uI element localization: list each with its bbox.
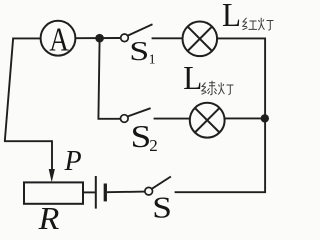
junction node right (dot)	[261, 114, 269, 122]
wire: lamp L1 to right corner	[217, 37, 266, 39]
svg-text:A: A	[49, 21, 69, 58]
wire: lower-left horizontal to slider stem	[4, 140, 52, 142]
wire: ammeter to switch S1	[76, 37, 121, 39]
label S1	[129, 36, 155, 67]
svg-text:S: S	[131, 119, 152, 154]
label L1 subscript: 灯 (hand-drawn)	[258, 18, 273, 31]
svg-text:1: 1	[149, 53, 156, 68]
label L2: L	[183, 60, 202, 97]
wire: S2 row horizontal to pivot	[98, 118, 121, 120]
lamp L1 (red) circle with cross	[183, 22, 218, 57]
svg-text:P: P	[64, 146, 82, 177]
label L2 subscript: 灯 (hand-drawn)	[218, 83, 233, 95]
switch S lever	[152, 177, 171, 189]
battery long plate (+)	[95, 176, 97, 209]
ammeter A	[41, 21, 76, 59]
label S2	[131, 119, 158, 155]
wire: lamp L2 to right side	[225, 117, 265, 119]
svg-text:2: 2	[149, 136, 158, 155]
wire: battery to switch S	[107, 191, 145, 194]
wire: top-left from left corner to ammeter	[13, 37, 41, 39]
wire: S2 to lamp L2	[154, 118, 191, 120]
switch S2 pivot circle	[121, 115, 129, 123]
svg-text:L: L	[222, 0, 241, 34]
label P	[64, 146, 82, 177]
svg-text:L: L	[183, 60, 202, 97]
label S	[152, 190, 172, 225]
rheostat R box	[24, 182, 83, 203]
switch S2 lever	[127, 108, 150, 116]
wire: switch S to bottom-right corner	[175, 191, 266, 193]
wire: branch vertical from top junction down to S2 row	[98, 38, 99, 119]
wire: right side vertical	[264, 38, 266, 193]
lamp L2 (green) circle with cross	[190, 103, 225, 138]
wire: S1 to lamp L1	[152, 37, 183, 39]
svg-text:S: S	[129, 36, 149, 66]
label L2 subscript: 绿 (hand-drawn)	[202, 81, 217, 95]
arrowhead onto rheostat slider P	[49, 169, 55, 182]
switch S pivot circle	[145, 187, 153, 195]
svg-text:S: S	[152, 190, 172, 225]
wire: slider stem vertical	[51, 140, 53, 172]
switch S1 pivot circle	[121, 34, 129, 42]
battery short plate (-)	[104, 184, 107, 202]
switch S1 lever	[128, 24, 153, 35]
label R	[38, 200, 60, 236]
junction node top (dot)	[95, 34, 104, 43]
label L1 subscript: 红 (hand-drawn)	[243, 18, 258, 30]
svg-text:R: R	[38, 200, 60, 232]
wire: left side (slanted down-left)	[5, 38, 13, 142]
wire: rheostat to battery	[83, 191, 95, 193]
label L1: L	[222, 0, 241, 34]
